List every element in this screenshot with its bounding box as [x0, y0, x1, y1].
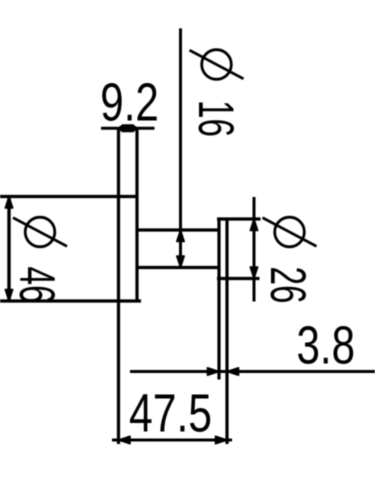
wire dia26 dimension line [253, 197, 256, 302]
wire disc bottom edge / dia26 extension [217, 277, 260, 280]
wire disc top edge / dia26 extension [217, 217, 261, 220]
arrow dia46 bottom [5, 290, 12, 302]
wire groove edge / 9.2 + 47.5 extension [117, 128, 120, 444]
arrow 3.8 right [227, 368, 239, 375]
svg-text:26: 26 [260, 267, 315, 304]
svg-text:9.2: 9.2 [100, 73, 159, 133]
wire flange bottom edge [0, 299, 141, 302]
arrow dia16 bottom [177, 256, 184, 268]
arrow 47.5 left [119, 436, 131, 443]
svg-text:47.5: 47.5 [129, 384, 212, 444]
diameter symbol of dia16 [202, 50, 232, 80]
wire 47.5 dimension line [112, 439, 232, 442]
wire dia16 dimension line [179, 28, 182, 267]
arrow dia16 top [177, 230, 184, 242]
wire dia46 dimension line [7, 195, 10, 302]
arrow 47.5 right [216, 436, 228, 443]
svg-text:16: 16 [188, 100, 243, 137]
svg-text:3.8: 3.8 [297, 316, 356, 376]
arrow 9.2 left and right merged blob [119, 125, 138, 131]
wire disc left edge / 3.8 extension [217, 219, 220, 380]
wire shaft top edge [137, 228, 219, 231]
wire 3.8 dimension line [130, 370, 375, 373]
arrow dia26 bottom [250, 267, 257, 279]
diameter symbol of dia26 [275, 217, 305, 247]
wire shaft bottom edge [137, 266, 219, 269]
wire flange right edge / 9.2 extension [135, 128, 138, 301]
wire 9.2 dimension line [101, 127, 155, 130]
svg-text:46: 46 [9, 267, 64, 304]
arrow dia26 top [250, 219, 257, 231]
wire disc right edge / 47.5 extension [225, 219, 228, 445]
wire flange top edge [0, 195, 138, 198]
diameter symbol of dia46 [25, 217, 55, 247]
arrow 3.8 left [208, 368, 220, 375]
arrow dia46 top [5, 197, 12, 209]
